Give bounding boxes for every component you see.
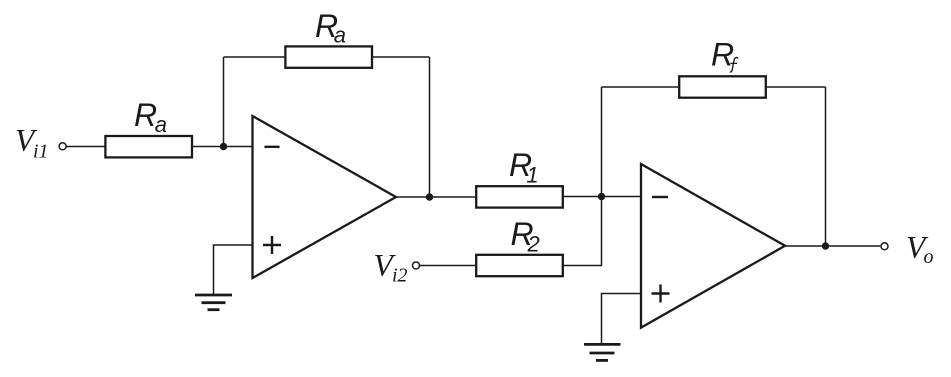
op-amp U2 — [641, 164, 785, 328]
node junction at U1 inverting input — [220, 143, 227, 150]
wire Rf down to U2 output — [825, 87, 827, 246]
wire Vi2 to R2 — [420, 265, 475, 267]
wire R2 to node — [562, 197, 602, 266]
node label V_i1 — [15, 123, 49, 163]
svg-text:i2: i2 — [392, 265, 408, 287]
wire node up to feedback — [223, 57, 225, 147]
svg-text:R: R — [711, 37, 734, 73]
op-amp U1 — [253, 116, 397, 278]
wire U1 non-inverting input — [214, 245, 253, 294]
ground (U1) — [195, 295, 232, 310]
wire U2 output to Vo — [785, 245, 880, 247]
svg-text:2: 2 — [527, 232, 540, 257]
svg-text:a: a — [155, 112, 167, 137]
node U1 output junction — [426, 193, 433, 200]
wire R1 to U2 inverting input — [562, 196, 641, 198]
svg-text:a: a — [334, 23, 346, 48]
resistor Ra (feedback) — [285, 8, 372, 68]
ground (U2) — [584, 344, 621, 360]
resistor Ra (input) — [105, 97, 192, 157]
wire U1 output to R1 — [396, 196, 475, 198]
node label V_o — [906, 230, 934, 268]
resistor Rf — [679, 37, 766, 98]
output terminal Vo — [881, 243, 888, 250]
resistor R2 — [476, 216, 563, 276]
svg-text:R: R — [134, 97, 157, 133]
svg-text:1: 1 — [526, 163, 538, 188]
wire Rf top left segment — [602, 86, 681, 88]
node label V_i2 — [374, 248, 408, 287]
wire node up to Rf — [601, 87, 603, 197]
wire Rf top right segment — [765, 86, 826, 88]
svg-text:o: o — [924, 246, 934, 268]
svg-text:i1: i1 — [33, 141, 49, 163]
input terminal Vi1 — [59, 143, 66, 150]
input terminal Vi2 — [413, 262, 420, 269]
wire Ra1 to U1 inverting input — [192, 146, 253, 148]
wire feedback top left segment — [224, 56, 287, 58]
wire feedback top right segment — [371, 56, 430, 58]
node junction at U2 inverting input — [598, 193, 605, 200]
wire Vi1 to Ra1 — [66, 146, 105, 148]
node U2 output junction — [822, 242, 829, 249]
resistor R1 — [476, 147, 563, 208]
wire U2 non-inverting input — [602, 294, 642, 345]
wire feedback down to U1 output — [429, 57, 431, 197]
